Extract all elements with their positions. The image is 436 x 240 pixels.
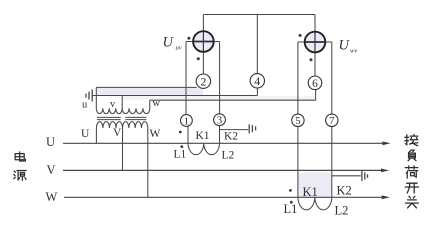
wire: w terminal vertical [149,100,151,108]
polarity dot CT2 L1 [290,201,293,204]
svg-text:wv: wv [350,48,357,55]
svg-text:W: W [150,128,161,140]
wire: PT secondary u wire to terminal 2 [96,86,197,88]
wire: v terminal vertical [121,96,123,109]
polarity dot element2 lower [310,58,313,61]
CT2 secondary humps [298,197,332,210]
svg-text:W: W [46,190,58,204]
svg-text:U: U [163,35,175,51]
svg-text:u: u [82,100,88,111]
wire: phase V line [63,169,382,171]
arrowhead V line [381,169,389,173]
wire: phase U line [63,142,384,144]
wire: terminal1 to CT1 K1 [187,126,189,143]
svg-text:w: w [153,98,161,109]
glyph 接 [405,135,418,146]
svg-text:7: 7 [329,115,335,127]
PT primary winding U-V [96,122,122,128]
polarity dot CT2 K1 [289,189,292,192]
glyph 开 [405,183,418,193]
svg-text:U: U [46,135,55,149]
wire: w wire to terminal 6 [150,90,316,100]
svg-text:3: 3 [217,116,222,127]
glyph 源 [14,170,26,180]
label 电源 (power source) hand-drawn glyphs [14,152,26,180]
terminal 1 [181,115,193,128]
tint band CT2 box [299,173,332,198]
PT secondary winding u-v [96,108,122,113]
polarity dot element2 upper [299,34,302,37]
terminal 6 [308,76,322,90]
svg-text:K2: K2 [337,184,352,198]
arrowhead U line [382,141,390,145]
glyph 关 [406,196,419,208]
terminal 3 [214,114,226,127]
tint band between u and v wires [97,87,203,95]
svg-text:V: V [113,127,122,139]
glyph 电 [15,152,25,161]
svg-text:L1: L1 [174,148,187,160]
CT1 ground symbol [249,124,255,133]
svg-text:U: U [81,128,90,140]
CT1 secondary humps [188,143,220,154]
meter element 1 (crossed circle) [193,31,214,52]
wire: element2 right lead down to terminal 7 [331,42,333,114]
svg-text:V: V [47,163,56,177]
wire: element2 left lead down to terminal 5 [297,42,299,114]
arrowhead W line [382,195,390,199]
svg-text:K1: K1 [196,130,210,142]
wire: element1 vertical (terminal2 to terminal4 coil path) [202,15,204,74]
wire: element2 vertical [314,15,316,77]
wire: terminal7 to CT2 K2 [331,127,333,198]
CT2 ground symbol [362,171,368,181]
polarity dot element1 upper [187,37,190,40]
wire: phase W line [64,196,383,198]
wire: v/ground wire to terminal 4 [93,88,258,95]
PT primary W terminal drop [147,128,149,197]
svg-text:6: 6 [312,78,318,90]
svg-text:L2: L2 [222,150,235,162]
svg-text:K2: K2 [224,131,238,143]
svg-text:1: 1 [184,116,189,127]
wire: element1 left lead down to terminal 1 [185,42,187,115]
wire: terminal 4 drop from top line [256,15,258,74]
svg-text:L1: L1 [284,202,298,216]
svg-text:L2: L2 [335,203,349,217]
polarity dot CT1 K1 [179,131,182,134]
svg-text:5: 5 [295,115,300,127]
PT ground symbol [86,90,92,102]
PT core bars [97,117,146,119]
polarity dot CT1 L1 [180,145,183,148]
label 接负荷开关 (to load switch) hand-drawn glyphs [405,135,419,208]
PT secondary winding v-w [122,108,150,113]
svg-text:v: v [110,99,116,110]
terminal 5 [292,114,304,127]
polarity dot element1 lower [197,57,200,60]
PT primary U terminal drop [95,128,97,143]
wire: element1 current coil horizontal [186,41,220,43]
PT primary winding V-W [123,122,148,128]
terminal 7 [326,114,338,127]
svg-text:4: 4 [254,74,260,88]
wire: top common voltage line [203,14,315,16]
svg-text:U: U [339,38,351,54]
glyph 荷 [405,166,418,178]
terminal 2 [196,74,210,89]
wire: u terminal vertical [95,87,97,108]
glyph 负 [408,150,416,161]
wire: element1 right lead down to terminal 3 [219,42,221,114]
meter element 2 (crossed circle) [305,32,326,53]
wire: element2 current coil horizontal [298,41,332,43]
wire: terminal3 to CT1 K2 [219,126,221,144]
wire: terminal5 to CT2 K1 [297,127,299,198]
CT2 ground wire [332,175,361,177]
terminal 4 [250,74,264,88]
CT1 ground wire [220,129,249,131]
svg-text:2: 2 [200,75,206,89]
PT primary V terminal drop [122,128,124,170]
svg-text:K1: K1 [303,185,318,199]
svg-text:uv: uv [176,45,182,52]
